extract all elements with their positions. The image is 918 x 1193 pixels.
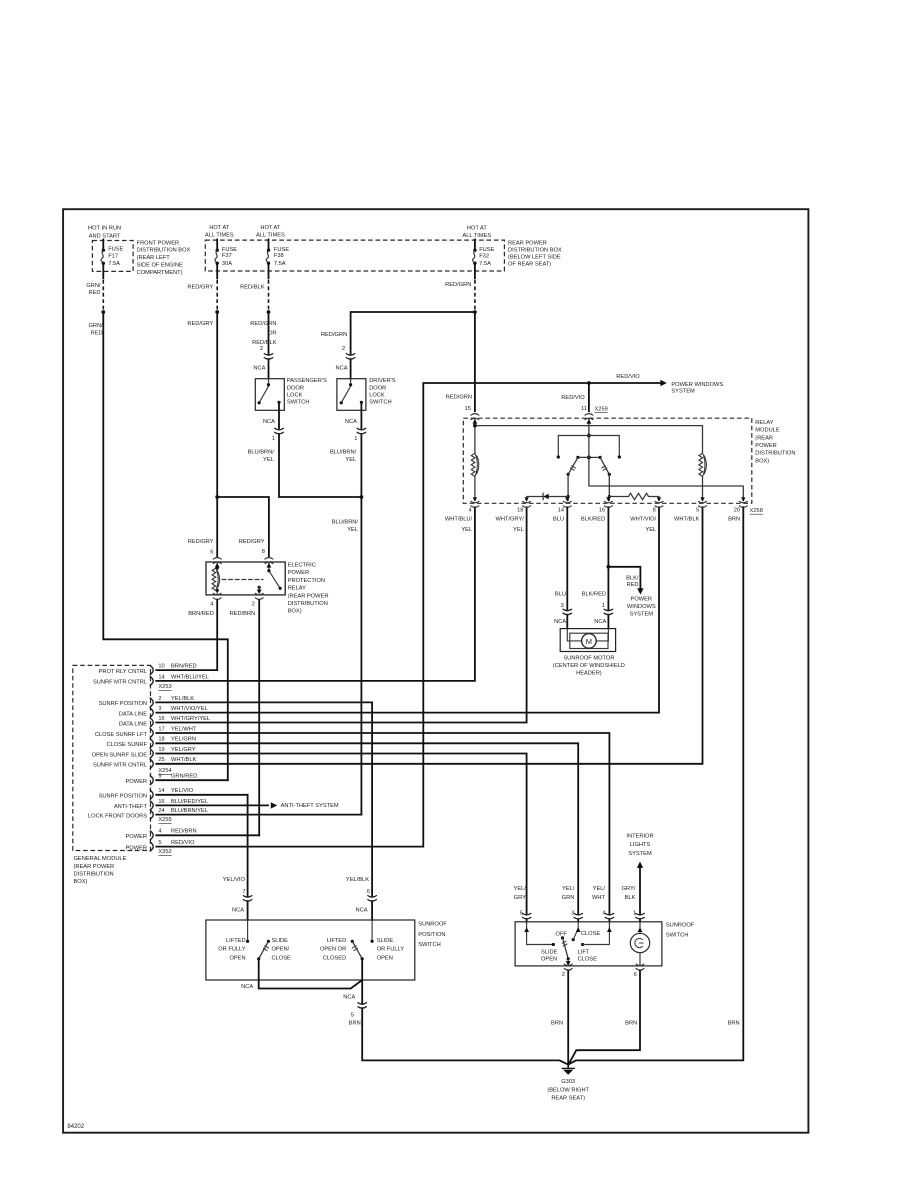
svg-text:RED/VIO: RED/VIO: [561, 395, 585, 401]
svg-text:WHT/GRY/: WHT/GRY/: [495, 517, 524, 523]
front power distribution box (dashed): [92, 241, 133, 272]
svg-text:YEL/: YEL/: [514, 886, 527, 892]
wire general module pin 25 WHT/BLK row to relay pin 5: [156, 507, 702, 764]
wire general module pin 10 row: [156, 669, 217, 671]
svg-text:(REAR LEFT: (REAR LEFT: [137, 255, 171, 261]
svg-text:(CENTER OF WINDSHIELD: (CENTER OF WINDSHIELD: [553, 663, 625, 669]
svg-text:2: 2: [562, 972, 565, 978]
connector pin 8 at relay module bottom: [630, 497, 663, 533]
svg-text:BRN/RED: BRN/RED: [188, 611, 214, 617]
svg-text:GRY: GRY: [514, 895, 526, 901]
svg-text:14: 14: [158, 788, 164, 794]
junction at relay coil feed: [473, 424, 477, 428]
svg-text:BLU/BRN/: BLU/BRN/: [248, 449, 275, 455]
svg-text:YEL: YEL: [645, 527, 656, 533]
border frame: [63, 209, 808, 1132]
svg-text:BRN/RED: BRN/RED: [171, 664, 197, 670]
svg-text:ALL TIMES: ALL TIMES: [462, 233, 491, 239]
svg-text:CLOSE: CLOSE: [581, 931, 600, 937]
wire RED/GRN from splice to relay module pin 15: [474, 312, 476, 411]
svg-text:RED/GRY: RED/GRY: [239, 539, 265, 545]
svg-text:5: 5: [158, 840, 161, 846]
connector pin 16 at relay module bottom: [581, 497, 613, 522]
svg-text:WHT: WHT: [592, 895, 605, 901]
wire BRN from sunroof switch pin 6 to ground: [569, 971, 640, 1064]
wire BRN/RED from EPP pin 4 to general module pin 10: [216, 600, 218, 670]
svg-text:BLU/BRN/: BLU/BRN/: [330, 449, 357, 455]
svg-text:BLU: BLU: [555, 591, 566, 597]
general module pin 5 RED/VIO (POWER): [126, 840, 195, 851]
electric power protection relay box: [206, 562, 285, 595]
fuse F17 7.5A: [102, 240, 104, 251]
svg-text:17: 17: [158, 726, 164, 732]
svg-text:SUNROOF MOTOR: SUNROOF MOTOR: [563, 655, 614, 661]
general module pin 19 YEL/GRY (OPEN SUNRF SLIDE): [92, 747, 196, 758]
splice on GRN/RED: [101, 310, 105, 314]
wire general module pin 9 GRN/RED row: [156, 779, 228, 781]
svg-text:RED/BLK: RED/BLK: [240, 285, 265, 291]
svg-text:GRN/: GRN/: [86, 283, 101, 289]
svg-text:NCA: NCA: [343, 995, 355, 1001]
relay lever to pin 16 wire: [608, 474, 610, 500]
svg-text:LIFTED: LIFTED: [226, 938, 246, 944]
svg-text:F38: F38: [274, 253, 284, 259]
svg-text:GRN/RED: GRN/RED: [171, 774, 197, 780]
svg-text:NCA: NCA: [241, 984, 253, 990]
svg-text:HOT IN RUN: HOT IN RUN: [88, 226, 121, 232]
svg-text:DISTRIBUTION: DISTRIBUTION: [288, 601, 328, 607]
svg-text:(REAR POWER: (REAR POWER: [288, 593, 329, 599]
wire RED/BRN from EPP pin 2 to general module pin 4: [258, 600, 260, 835]
svg-text:POWER: POWER: [288, 570, 310, 576]
junction RED/VIO: [587, 381, 591, 385]
wire BLU/BRN/YEL from driver switch to general module pin 24: [360, 402, 362, 814]
svg-text:ANTI-THEFT: ANTI-THEFT: [114, 804, 148, 810]
svg-text:CLOSE: CLOSE: [578, 957, 597, 963]
svg-text:YEL: YEL: [345, 457, 356, 463]
svg-text:LIFT: LIFT: [578, 949, 590, 955]
svg-text:BLK: BLK: [625, 895, 636, 901]
connector pin 1 (driver): [360, 430, 363, 433]
general module pin 17 YEL/WHT (CLOSE SUNRF LFT): [95, 726, 197, 737]
svg-text:2: 2: [252, 601, 255, 607]
splice on RED/GRN: [473, 310, 477, 314]
svg-text:YEL: YEL: [263, 457, 274, 463]
general module pin 25 WHT/BLK (SUNRF MTR CNTRL): [93, 757, 197, 768]
svg-text:ALL TIMES: ALL TIMES: [205, 233, 234, 239]
svg-text:POWER: POWER: [126, 779, 148, 785]
wire BRN from relay pin 20 to ground: [569, 507, 744, 1064]
wire RED/GRN from splice to driver door lock switch: [351, 312, 475, 379]
svg-text:5: 5: [696, 508, 699, 514]
svg-text:OPEN: OPEN: [541, 957, 557, 963]
junction BLK/RED branch: [607, 565, 611, 569]
EPP relay dashed actuator link: [222, 579, 263, 581]
arrow to power windows system (top): [660, 380, 666, 386]
svg-text:6: 6: [367, 889, 370, 895]
wire F37 to splice (dashed): [216, 263, 218, 278]
svg-text:BOX): BOX): [288, 609, 302, 615]
svg-text:MODULE: MODULE: [755, 428, 780, 434]
svg-text:BRN: BRN: [625, 1021, 637, 1027]
svg-text:SLIDE: SLIDE: [272, 938, 289, 944]
junction RED/GRY: [215, 495, 219, 499]
svg-text:YEL/: YEL/: [562, 886, 575, 892]
svg-text:NCA: NCA: [253, 365, 265, 371]
svg-text:HOT AT: HOT AT: [467, 225, 488, 231]
svg-text:(REAR: (REAR: [755, 435, 773, 441]
wire general module pin 2 YEL/BLK row to sunroof position switch: [156, 702, 372, 920]
svg-text:LOCK: LOCK: [287, 392, 303, 398]
svg-text:15: 15: [465, 406, 471, 412]
svg-text:NCA: NCA: [232, 908, 244, 914]
position switch contact 2 (lifted open or closed): [371, 920, 373, 941]
svg-text:RED: RED: [626, 582, 638, 588]
wire F17 to splice (dashed): [102, 263, 104, 278]
svg-text:7.5A: 7.5A: [274, 261, 286, 267]
svg-text:RED/GRY: RED/GRY: [188, 539, 214, 545]
svg-text:SWITCH: SWITCH: [418, 942, 440, 948]
svg-text:YEL: YEL: [347, 527, 358, 533]
general module pin 16 BLU/RED/YEL (ANTI-THEFT): [114, 799, 208, 810]
svg-text:X352: X352: [158, 849, 171, 855]
svg-text:9: 9: [158, 774, 161, 780]
svg-text:SUNRF MTR CNTRL: SUNRF MTR CNTRL: [93, 680, 147, 686]
wire from position switch levers to ground: [259, 959, 568, 1065]
connector pin 4 at EPP relay: [213, 593, 221, 594]
arrow to anti-theft system: [271, 802, 277, 808]
svg-text:G303: G303: [561, 1079, 575, 1085]
wire general module pin 16 BLU/RED/YEL row to anti-theft system: [156, 804, 268, 806]
svg-text:1: 1: [602, 603, 605, 609]
sunroof switch box: [515, 922, 662, 966]
EPP relay switch contacts: [269, 562, 280, 588]
svg-text:SYSTEM: SYSTEM: [671, 389, 695, 395]
svg-text:YEL/BLK: YEL/BLK: [171, 696, 194, 702]
svg-text:POWER: POWER: [126, 834, 148, 840]
relay module box (dashed): [463, 418, 752, 503]
svg-text:WHT/VIO/YEL: WHT/VIO/YEL: [171, 706, 208, 712]
wire general module pin 24 BLU/BRN/YEL row: [156, 814, 361, 816]
svg-text:REAR POWER: REAR POWER: [508, 241, 547, 247]
svg-text:FUSE: FUSE: [274, 247, 289, 253]
svg-text:RED/GRY: RED/GRY: [187, 285, 213, 291]
general module pin 10 BRN/RED (PROT RLY CNTRL): [99, 664, 197, 675]
wire RED/GRY from splice to EPP relay pin 6: [216, 312, 218, 557]
svg-text:14: 14: [558, 508, 564, 514]
connector pin 20 at relay module bottom: [728, 497, 747, 522]
svg-text:YEL/GRN: YEL/GRN: [171, 737, 196, 743]
sunroof switch lift-close contact: [581, 943, 584, 946]
wire F38 to splice (dashed): [268, 263, 270, 278]
general module box (dashed): [73, 665, 151, 850]
svg-text:7.5A: 7.5A: [479, 261, 491, 267]
svg-text:RED/GRN: RED/GRN: [445, 282, 471, 288]
connector pin 2 at EPP relay: [255, 593, 263, 594]
wire general module pin 16 WHT/GRY/YEL row to relay pin 18: [156, 507, 526, 722]
svg-text:19: 19: [158, 747, 164, 753]
svg-text:NCA: NCA: [263, 419, 275, 425]
svg-text:GRN/: GRN/: [88, 323, 103, 329]
relay coil K1 (left): [471, 453, 475, 476]
svg-text:DISTRIBUTION BOX: DISTRIBUTION BOX: [137, 248, 191, 254]
svg-text:4: 4: [469, 508, 472, 514]
splice on RED/BLK: [267, 310, 271, 314]
svg-text:DISTRIBUTION: DISTRIBUTION: [755, 451, 795, 457]
svg-text:RED: RED: [88, 290, 100, 296]
wire BLU from relay pin 14 to sunroof motor: [566, 507, 568, 628]
svg-text:18: 18: [517, 508, 523, 514]
svg-text:20: 20: [734, 508, 740, 514]
svg-text:HOT AT: HOT AT: [260, 225, 281, 231]
svg-text:RED/GRN: RED/GRN: [321, 332, 347, 338]
svg-text:NCA: NCA: [355, 908, 367, 914]
svg-text:RED/GRY: RED/GRY: [187, 321, 213, 327]
svg-text:RED/VIO: RED/VIO: [171, 840, 195, 846]
svg-text:PROTECTION: PROTECTION: [288, 578, 325, 584]
svg-text:2: 2: [158, 696, 161, 702]
position switch lever 1 (slide open/close): [267, 940, 270, 943]
svg-text:F37: F37: [222, 253, 232, 259]
connector pin 5 at relay module bottom: [674, 497, 706, 522]
svg-text:(BELOW RIGHT: (BELOW RIGHT: [547, 1087, 589, 1093]
driver door lock switch: [337, 379, 366, 411]
svg-text:LIFTED: LIFTED: [327, 938, 347, 944]
svg-text:1: 1: [354, 436, 357, 442]
svg-text:(BELOW LEFT SIDE: (BELOW LEFT SIDE: [508, 255, 561, 261]
svg-text:5: 5: [351, 1013, 354, 1019]
relay coil feed wire from pin 15: [475, 418, 703, 453]
svg-text:CLOSE SUNRF LFT: CLOSE SUNRF LFT: [95, 732, 148, 738]
svg-text:CLOSE: CLOSE: [272, 956, 291, 962]
svg-text:DATA LINE: DATA LINE: [119, 711, 147, 717]
svg-text:OF REAR SEAT): OF REAR SEAT): [508, 261, 551, 267]
connector pin 14 at relay module bottom: [553, 497, 571, 522]
wire BLK/RED branch to power windows system: [608, 567, 640, 588]
svg-text:X253: X253: [158, 684, 171, 690]
svg-text:WHT/BLK: WHT/BLK: [674, 517, 699, 523]
svg-text:PASSENGER'S: PASSENGER'S: [287, 378, 327, 384]
wire general module pin 18 YEL/GRN row to sunroof switch pin 3: [156, 743, 578, 922]
wire GRN/RED from splice to general module pin 9: [103, 312, 228, 780]
svg-text:11: 11: [581, 406, 587, 412]
wire F32 to splice (dashed): [474, 263, 476, 278]
svg-text:OPEN SUNRF SLIDE: OPEN SUNRF SLIDE: [92, 752, 148, 758]
svg-text:2: 2: [342, 346, 345, 352]
svg-text:HEADER): HEADER): [576, 671, 602, 677]
fuse F37 30A: [216, 240, 218, 251]
svg-text:YEL: YEL: [513, 527, 524, 533]
svg-text:SUNRF MTR CNTRL: SUNRF MTR CNTRL: [93, 763, 147, 769]
svg-text:BLU/BRN/: BLU/BRN/: [332, 520, 359, 526]
general module pin 18 YEL/GRN (CLOSE SUNRF): [107, 737, 196, 748]
svg-text:GRY/: GRY/: [622, 886, 636, 892]
wire general module pin 19 YEL/GRY row to sunroof switch pin 5: [156, 754, 526, 922]
svg-text:DISTRIBUTION: DISTRIBUTION: [74, 871, 114, 877]
svg-text:4: 4: [158, 829, 161, 835]
svg-text:WHT/VIO/: WHT/VIO/: [630, 517, 656, 523]
svg-text:RELAY: RELAY: [288, 586, 306, 592]
arrow to power windows system (down): [637, 588, 643, 594]
svg-text:POWER: POWER: [631, 597, 653, 603]
EPP relay coil: [216, 562, 218, 595]
svg-text:OR FULLY: OR FULLY: [377, 947, 405, 953]
wire general module pin 3 WHT/VIO/YEL row to relay pin 8: [156, 507, 659, 712]
svg-text:YEL/VIO: YEL/VIO: [171, 788, 194, 794]
svg-text:ELECTRIC: ELECTRIC: [288, 563, 316, 569]
general module pin 14 WHT/BLU/YEL (SUNRF MTR CNTRL): [93, 674, 209, 685]
relay common feed from pin 11: [589, 418, 743, 500]
sunroof motor M: [560, 629, 615, 652]
svg-text:OPEN: OPEN: [377, 956, 393, 962]
wire general module pin 14 WHT/BLU/YEL row to relay pin 4: [156, 507, 475, 681]
svg-text:16: 16: [599, 508, 605, 514]
svg-text:LIGHTS: LIGHTS: [630, 842, 651, 848]
svg-text:SYSTEM: SYSTEM: [630, 611, 654, 617]
svg-text:YEL/GRY: YEL/GRY: [171, 747, 196, 753]
wire RED/VIO junction to relay pin 11: [588, 383, 590, 411]
svg-text:REAR SEAT): REAR SEAT): [551, 1095, 585, 1101]
svg-text:6: 6: [634, 972, 637, 978]
svg-text:YEL/VIO: YEL/VIO: [223, 877, 246, 883]
svg-text:(REAR POWER: (REAR POWER: [74, 864, 115, 870]
relay lever to pin 14 wire: [567, 474, 569, 500]
svg-text:SLIDE: SLIDE: [377, 938, 394, 944]
svg-text:16: 16: [158, 716, 164, 722]
svg-text:OR FULLY: OR FULLY: [218, 947, 246, 953]
svg-text:BLK/RED: BLK/RED: [581, 517, 605, 523]
diode D1 to pin 18: [527, 497, 569, 501]
svg-text:84202: 84202: [67, 1124, 84, 1130]
svg-text:OR: OR: [268, 331, 277, 337]
wire RED/GRY branch to EPP relay pin 8: [217, 497, 269, 557]
svg-text:SWITCH: SWITCH: [287, 400, 309, 406]
svg-text:RED/BRN: RED/BRN: [230, 611, 256, 617]
svg-text:BLU/RED/YEL: BLU/RED/YEL: [171, 799, 208, 805]
svg-text:RED/GRN: RED/GRN: [250, 321, 276, 327]
svg-text:4: 4: [210, 601, 213, 607]
svg-text:FUSE: FUSE: [222, 247, 237, 253]
connector pin 5 on BRN wire: [361, 1005, 364, 1008]
wire BLK/RED from relay pin 16 to sunroof motor: [607, 507, 609, 628]
svg-text:YEL/WHT: YEL/WHT: [171, 726, 197, 732]
svg-text:7.5A: 7.5A: [108, 261, 120, 267]
svg-text:CLOSE SUNRF: CLOSE SUNRF: [107, 742, 148, 748]
svg-text:SUNRF POSITION: SUNRF POSITION: [99, 794, 147, 800]
wire GRY/BLK from sunroof switch to interior lights: [639, 868, 641, 922]
svg-text:30A: 30A: [222, 261, 232, 267]
svg-text:RED/BLK: RED/BLK: [252, 340, 277, 346]
connector pin 1 (passenger): [278, 430, 281, 433]
svg-text:BRN: BRN: [728, 517, 740, 523]
fuse F32 7.5A: [474, 240, 476, 251]
svg-text:3: 3: [158, 706, 161, 712]
wire general module pin 4 RED/BRN row: [156, 834, 259, 836]
connector pin 18 at relay module bottom: [495, 497, 530, 533]
svg-text:BLU: BLU: [553, 517, 564, 523]
svg-text:LOCK FRONT DOORS: LOCK FRONT DOORS: [88, 813, 147, 819]
svg-text:ALL TIMES: ALL TIMES: [256, 233, 285, 239]
svg-text:SLIDE: SLIDE: [541, 949, 558, 955]
wire general module pin 17 YEL/WHT row to sunroof switch pin 4: [156, 733, 609, 922]
svg-text:DOOR: DOOR: [369, 385, 386, 391]
svg-text:RELAY: RELAY: [755, 420, 773, 426]
svg-text:RED/BRN: RED/BRN: [171, 829, 197, 835]
connector pin 2 below sunroof switch: [564, 964, 572, 965]
general module pin 2 YEL/BLK (SUNRF POSITION): [99, 696, 195, 707]
svg-text:BRN: BRN: [551, 1021, 563, 1027]
svg-text:AND START: AND START: [89, 234, 121, 240]
svg-text:OPEN: OPEN: [229, 956, 245, 962]
wire general module pin 5 RED/VIO row to power windows / relay pin 11: [156, 383, 660, 847]
svg-text:BLU/BRN/YEL: BLU/BRN/YEL: [171, 808, 208, 814]
relay armature hinges: [578, 456, 600, 458]
svg-text:2: 2: [260, 346, 263, 352]
svg-text:NCA: NCA: [554, 619, 566, 625]
svg-text:INTERIOR: INTERIOR: [626, 833, 653, 839]
svg-text:DISTRIBUTION BOX: DISTRIBUTION BOX: [508, 248, 562, 254]
svg-text:X258: X258: [750, 508, 763, 514]
svg-text:1: 1: [272, 436, 275, 442]
svg-text:BLK/: BLK/: [626, 575, 639, 581]
svg-text:24: 24: [158, 808, 164, 814]
svg-text:F32: F32: [479, 254, 489, 260]
svg-text:8: 8: [653, 508, 656, 514]
svg-text:NCA: NCA: [345, 419, 357, 425]
relay contact support bracket: [558, 436, 619, 458]
resistor R1 to pin 8: [609, 497, 659, 501]
sunroof position switch box: [206, 920, 415, 980]
svg-text:PROT RLY CNTRL: PROT RLY CNTRL: [99, 669, 147, 675]
sunroof switch illumination lamp: [639, 922, 641, 966]
svg-text:RED: RED: [91, 331, 103, 337]
general module pin 9 GRN/RED (POWER): [126, 774, 198, 785]
svg-text:7: 7: [242, 889, 245, 895]
svg-text:FRONT POWER: FRONT POWER: [137, 240, 180, 246]
svg-text:X259: X259: [595, 406, 608, 412]
svg-text:RED/VIO: RED/VIO: [616, 374, 640, 380]
svg-text:SWITCH: SWITCH: [369, 400, 391, 406]
svg-text:YEL/: YEL/: [593, 886, 606, 892]
svg-text:YEL: YEL: [461, 527, 472, 533]
svg-text:DRIVER'S: DRIVER'S: [369, 378, 396, 384]
position switch lever 2 (slide or fully open): [351, 940, 354, 943]
svg-text:HOT AT: HOT AT: [209, 225, 230, 231]
rear power distribution box (dashed): [205, 240, 504, 271]
svg-text:NCA: NCA: [594, 619, 606, 625]
relay contact lever (left): [568, 457, 578, 474]
passenger door lock switch: [255, 379, 284, 411]
svg-text:POWER: POWER: [755, 443, 777, 449]
svg-text:LOCK: LOCK: [369, 392, 385, 398]
svg-text:SYSTEM: SYSTEM: [628, 851, 652, 857]
svg-text:WHT/BLU/YEL: WHT/BLU/YEL: [171, 674, 209, 680]
wire BLU/BRN/YEL from passenger switch to junction: [279, 402, 361, 497]
ground G303: [567, 1064, 569, 1068]
svg-text:YEL/BLK: YEL/BLK: [346, 877, 369, 883]
svg-text:SUNROOF: SUNROOF: [418, 922, 447, 928]
position switch contact 1 (lifted or fully open): [247, 920, 249, 941]
splice on RED/GRY: [215, 310, 219, 314]
svg-text:F17: F17: [108, 254, 118, 260]
junction BLU/BRN/YEL: [360, 495, 364, 499]
svg-text:POSITION: POSITION: [418, 932, 445, 938]
svg-text:NCA: NCA: [335, 365, 347, 371]
svg-text:FUSE: FUSE: [479, 247, 494, 253]
general module pin 3 WHT/VIO/YEL (DATA LINE): [119, 706, 208, 717]
wire general module pin 14 YEL/VIO row to sunroof position switch: [156, 795, 247, 920]
svg-text:FUSE: FUSE: [108, 247, 123, 253]
